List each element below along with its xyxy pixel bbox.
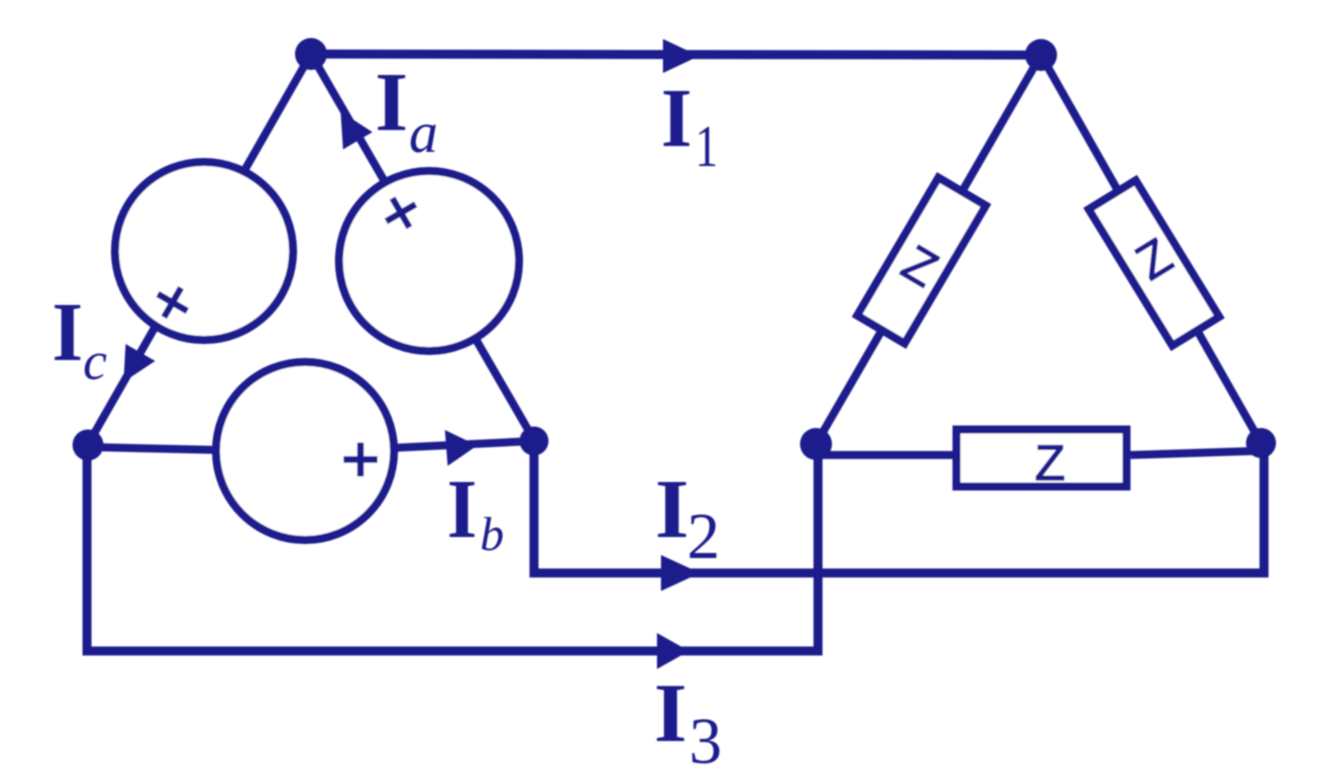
label Ib xyxy=(447,463,504,561)
label Ia xyxy=(375,56,438,165)
node E (right delta bottom-left) xyxy=(800,428,832,460)
node C (left delta bottom-right) xyxy=(520,427,549,456)
wire: I3 path from node B down, right, up to node E xyxy=(87,445,818,651)
impedance Z3 (bottom leg of right delta) xyxy=(957,430,1127,492)
svg-text:I: I xyxy=(655,463,689,556)
node D (right delta apex) xyxy=(1025,39,1057,71)
svg-text:a: a xyxy=(409,100,438,165)
label I1 xyxy=(661,72,718,179)
svg-text:Z: Z xyxy=(1035,435,1066,491)
source V3 (bottom circle with + polarity) xyxy=(216,362,394,540)
wire: right delta bottom leg E to F xyxy=(818,451,1131,459)
wire: right delta right leg D to F xyxy=(1041,55,1261,443)
svg-text:c: c xyxy=(83,331,107,391)
svg-text:1: 1 xyxy=(695,113,718,179)
arrow I3 on bottom horizontal wire xyxy=(657,633,689,669)
source V1 (top-left circle with + polarity) xyxy=(115,162,293,340)
label I2 xyxy=(655,463,720,573)
svg-text:I: I xyxy=(661,72,692,165)
node B (left delta bottom-left) xyxy=(73,430,104,461)
arrow I2 on middle horizontal wire xyxy=(661,555,700,591)
svg-text:I: I xyxy=(447,463,477,556)
arrow Ia on source V2 branch xyxy=(326,103,373,150)
wire: left delta right leg A to C xyxy=(311,54,534,440)
svg-text:I: I xyxy=(654,667,687,760)
source V2 (upper-middle circle with + polarity) xyxy=(339,171,519,351)
label Ic xyxy=(52,286,107,391)
svg-text:I: I xyxy=(375,56,408,149)
arrow Ic on source V1 branch xyxy=(109,344,155,390)
label I3 xyxy=(654,667,722,769)
svg-text:3: 3 xyxy=(689,705,722,769)
impedance Z2 (right leg of right delta) xyxy=(1089,180,1219,345)
node A (left delta apex) xyxy=(295,38,327,70)
node F (right delta bottom-right) xyxy=(1246,428,1276,458)
wire: right delta left leg D to E xyxy=(816,55,1041,444)
svg-text:b: b xyxy=(480,508,504,561)
arrow Ib on left delta bottom leg xyxy=(445,428,479,466)
wire: I2 path from node C down, right, up to node F xyxy=(534,441,1264,573)
arrow I1 on top wire xyxy=(663,39,699,73)
svg-text:I: I xyxy=(52,286,83,379)
svg-text:2: 2 xyxy=(687,500,720,573)
wire: top line node A to node D (I1 line) xyxy=(311,54,1041,55)
impedance Z1 (left leg of right delta) xyxy=(857,178,986,344)
wire: left delta left leg A to B xyxy=(87,54,311,446)
wire: left delta bottom leg B to C xyxy=(87,441,534,452)
